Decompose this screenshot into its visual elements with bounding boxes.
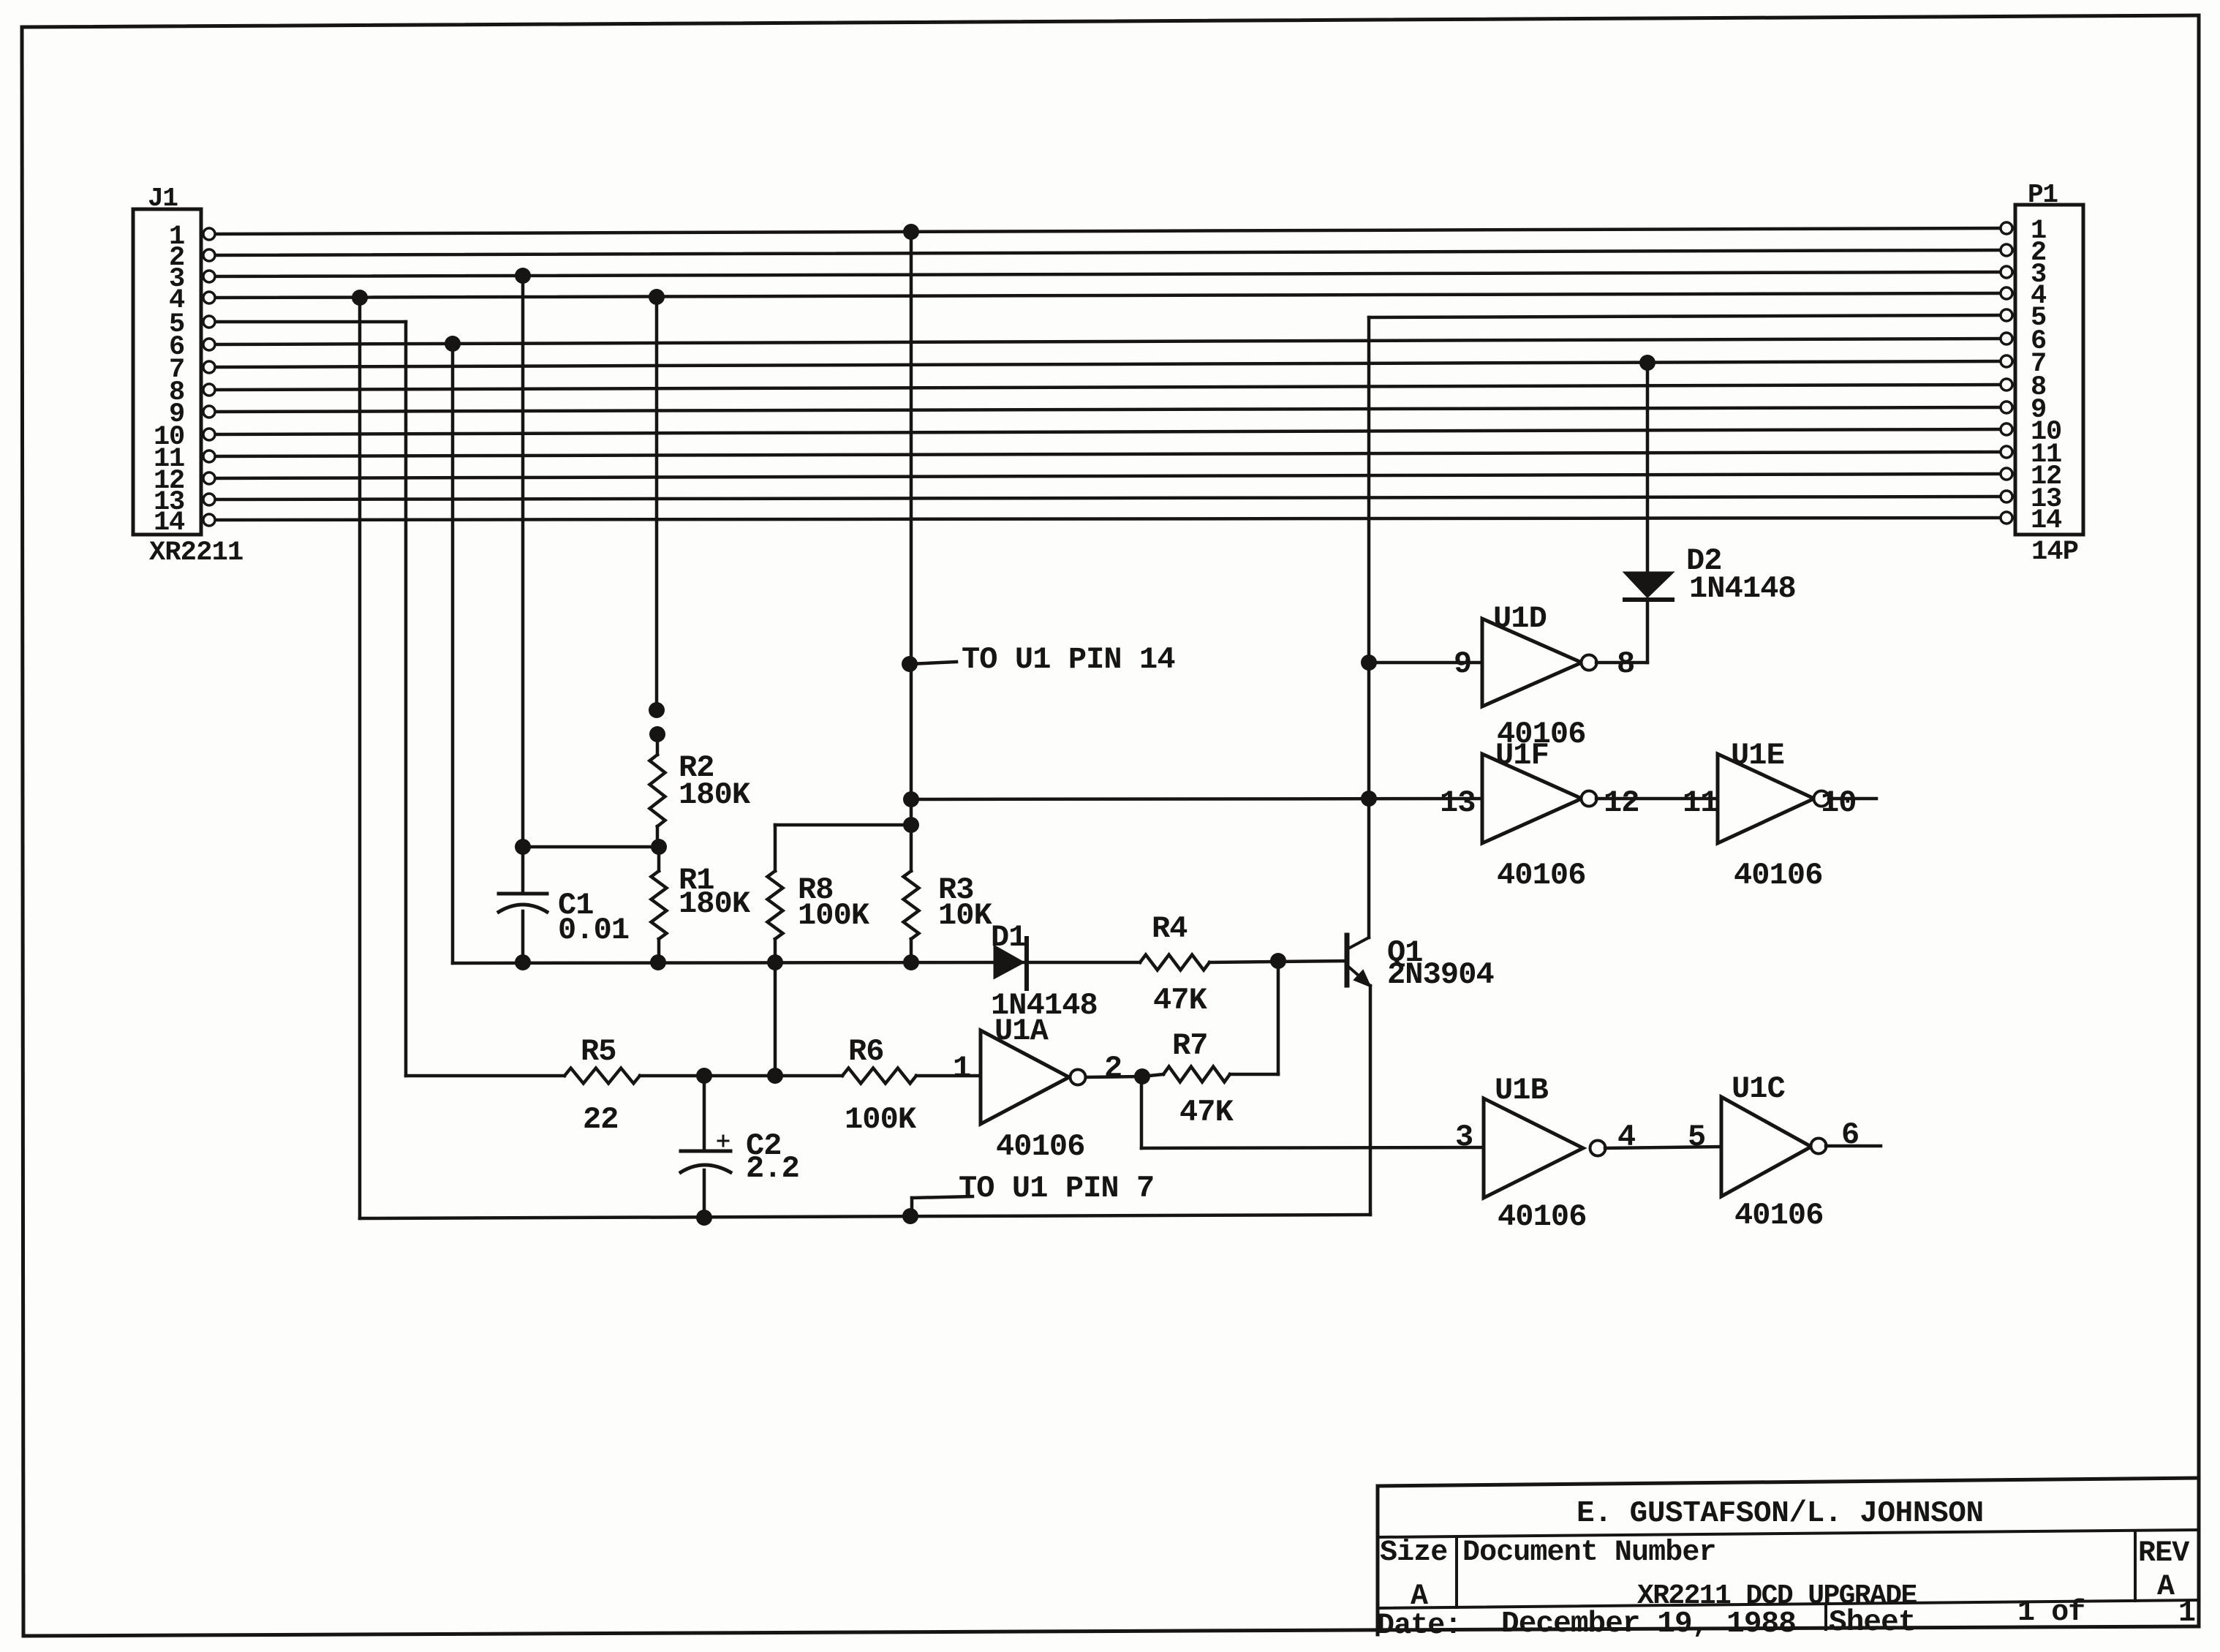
svg-text:100K: 100K [798,898,870,933]
svg-text:Date:: Date: [1377,1610,1462,1642]
svg-text:40106: 40106 [996,1129,1085,1164]
svg-text:100K: 100K [845,1102,917,1137]
svg-text:U1A: U1A [994,1014,1049,1049]
svg-text:R7: R7 [1172,1028,1208,1063]
svg-text:P1: P1 [2028,180,2058,210]
svg-text:10K: 10K [938,898,993,933]
svg-text:A: A [1411,1580,1428,1613]
svg-text:40106: 40106 [1497,858,1586,893]
svg-text:6: 6 [1841,1117,1859,1153]
svg-text:8: 8 [1617,646,1634,682]
svg-text:Size: Size [1380,1536,1447,1569]
svg-text:14: 14 [154,508,185,538]
svg-text:U1C: U1C [1732,1071,1786,1106]
svg-text:2: 2 [1104,1051,1122,1086]
svg-text:180K: 180K [679,777,751,812]
svg-text:22: 22 [583,1102,619,1137]
svg-text:REV: REV [2138,1537,2189,1570]
svg-text:2N3904: 2N3904 [1387,957,1494,992]
svg-text:Sheet: Sheet [1829,1606,1916,1640]
svg-text:XR2211: XR2211 [149,538,243,568]
svg-text:U1F: U1F [1495,738,1549,773]
svg-text:U1B: U1B [1495,1073,1549,1108]
svg-text:3: 3 [1455,1120,1473,1155]
svg-text:10: 10 [1821,785,1857,821]
svg-text:40106: 40106 [1734,858,1823,893]
svg-text:U1D: U1D [1493,601,1547,636]
svg-text:47K: 47K [1179,1095,1234,1130]
svg-text:1: 1 [2178,1597,2195,1630]
svg-text:12: 12 [1604,785,1639,821]
svg-text:40106: 40106 [1498,1199,1587,1234]
svg-text:40106: 40106 [1734,1198,1824,1233]
svg-text:0.01: 0.01 [558,913,629,948]
svg-text:14: 14 [2031,505,2062,536]
svg-text:4: 4 [1617,1120,1635,1155]
svg-text:Document Number: Document Number [1462,1536,1716,1569]
svg-text:1N4148: 1N4148 [1689,571,1796,606]
svg-text:1 of: 1 of [2017,1596,2085,1629]
svg-text:5: 5 [1688,1120,1705,1155]
svg-text:J1: J1 [148,184,178,214]
svg-text:D1: D1 [991,920,1027,955]
svg-text:TO U1 PIN 14: TO U1 PIN 14 [962,642,1175,677]
svg-text:13: 13 [1440,785,1476,821]
svg-text:R4: R4 [1152,911,1188,946]
svg-text:A: A [2157,1571,2175,1604]
svg-text:47K: 47K [1153,983,1208,1018]
svg-text:R6: R6 [848,1034,884,1069]
svg-text:2.2: 2.2 [746,1151,799,1186]
svg-text:1: 1 [953,1051,970,1086]
svg-text:180K: 180K [679,886,751,921]
svg-text:14P: 14P [2031,537,2078,567]
svg-text:U1E: U1E [1731,738,1784,773]
svg-text:R5: R5 [581,1034,616,1069]
svg-text:December 19, 1988: December 19, 1988 [1501,1607,1796,1641]
svg-text:E. GUSTAFSON/L. JOHNSON: E. GUSTAFSON/L. JOHNSON [1577,1497,1984,1531]
svg-text:11: 11 [1683,785,1718,821]
svg-text:TO U1 PIN 7: TO U1 PIN 7 [959,1171,1154,1206]
svg-text:9: 9 [1454,646,1471,682]
